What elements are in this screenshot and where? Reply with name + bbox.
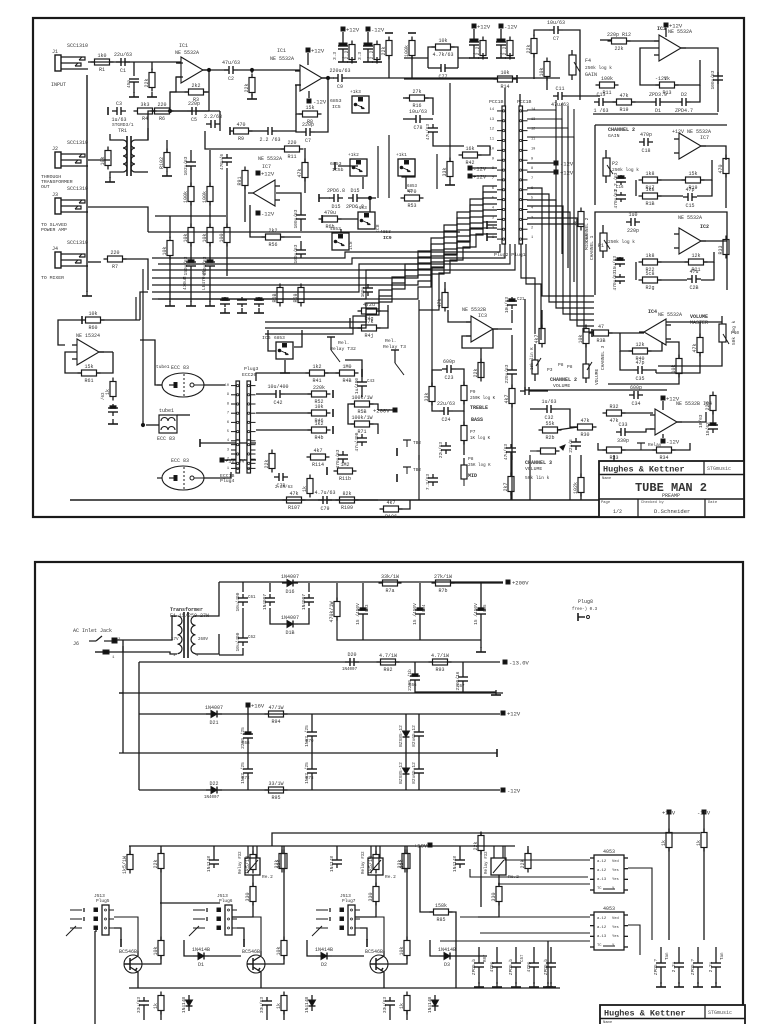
svg-text:PCC1B: PCC1B (489, 99, 504, 105)
title block page 2 (600, 1005, 745, 1024)
svg-text:1N4007: 1N4007 (281, 615, 299, 621)
wire (534, 344, 536, 352)
svg-text:1N4148: 1N4148 (329, 856, 335, 873)
svg-text:3k3: 3k3 (140, 102, 149, 108)
wire R330 to plug (478, 902, 499, 917)
svg-text:-12V: -12V (655, 76, 667, 82)
svg-text:SCC1310: SCC1310 (67, 140, 88, 146)
svg-text:100k: 100k (202, 191, 208, 203)
svg-text:R9: R9 (238, 136, 244, 142)
svg-text:220: 220 (110, 250, 119, 256)
svg-text:IC9: IC9 (383, 235, 392, 241)
label CHANNEL 2 (608, 127, 635, 133)
capacitor C66 (407, 669, 420, 691)
resistor R25 (473, 359, 484, 382)
wire (122, 259, 148, 290)
wire net R6 (527, 218, 594, 326)
wire (662, 401, 664, 410)
svg-text:ZPD4.7: ZPD4.7 (675, 108, 693, 114)
svg-text:IC5b: IC5b (332, 167, 344, 173)
svg-text:22k: 22k (244, 83, 250, 92)
svg-text:R93: R93 (435, 667, 444, 673)
svg-text:NE 5532A: NE 5532A (270, 56, 294, 62)
capacitor C24 (437, 401, 455, 423)
svg-text:8: 8 (227, 402, 229, 406)
svg-text:R11b: R11b (339, 476, 351, 482)
diode D2e (304, 995, 316, 1013)
wire (296, 85, 303, 114)
svg-text:470p: 470p (640, 132, 652, 138)
wire to strip top 2 (519, 94, 521, 106)
wire (88, 207, 148, 232)
wire (298, 608, 309, 624)
svg-text:1N4148: 1N4148 (452, 856, 458, 873)
svg-text:25K log K: 25K log K (468, 463, 491, 468)
svg-text:SCC1310: SCC1310 (67, 43, 88, 49)
svg-text:100u: 100u (360, 286, 366, 297)
wire (129, 846, 131, 854)
resistor R1B (639, 187, 662, 207)
ground Cc1 (674, 982, 684, 987)
svg-text:16k: 16k (465, 146, 474, 152)
wire (308, 91, 310, 98)
wire (405, 742, 407, 753)
svg-text:BC546B: BC546B (119, 949, 137, 955)
resistor R17 (639, 171, 662, 191)
svg-text:C62: C62 (248, 636, 256, 640)
svg-text:10/63: 10/63 (705, 422, 711, 436)
svg-text:D22: D22 (209, 781, 218, 787)
svg-text:CHANNEL 2: CHANNEL 2 (608, 127, 635, 133)
label IC2 (700, 224, 709, 230)
svg-text:R4B: R4B (342, 378, 351, 384)
wire (533, 947, 535, 959)
wire (463, 411, 465, 425)
label 25K log K (468, 463, 491, 468)
wire left vert (418, 300, 420, 460)
wire (463, 441, 465, 455)
svg-text:C24: C24 (441, 417, 450, 423)
terminal (408, 32, 416, 34)
resistor R52 (308, 385, 331, 405)
resistor R11b (334, 462, 357, 482)
Plug3 pin numbers (225, 384, 229, 471)
resistor P9 (461, 382, 467, 405)
label P8 (468, 456, 474, 462)
wire (608, 374, 679, 384)
wire (158, 244, 505, 264)
wire mid gnd bus (119, 752, 497, 754)
svg-text:CHANNEL 2: CHANNEL 2 (584, 217, 590, 242)
label THROUGH (41, 174, 61, 180)
capacitor Cb0 (471, 959, 484, 976)
svg-text:330: 330 (491, 892, 497, 901)
connector Plug6 (J513) (217, 893, 237, 935)
wire (515, 947, 517, 959)
wire (665, 28, 667, 37)
wire AC to primary bottom (109, 652, 177, 654)
label 250k log k (608, 239, 635, 245)
wire plug down (360, 928, 367, 940)
power tag -12V right (554, 161, 574, 168)
svg-text:R59: R59 (293, 293, 299, 302)
svg-text:R11: R11 (287, 154, 296, 160)
svg-text:1k: 1k (153, 1003, 159, 1009)
svg-text:CHANNEL 3: CHANNEL 3 (600, 345, 606, 370)
resistor R59 (293, 284, 304, 307)
wire (342, 32, 344, 44)
wire (160, 846, 162, 853)
wire vert (135, 297, 137, 320)
transistor T2 (242, 949, 265, 977)
svg-text:15 /450V: 15 /450V (355, 603, 361, 625)
svg-text:6853: 6853 (330, 98, 342, 104)
svg-text:14: 14 (490, 108, 494, 112)
svg-text:free-) 0.3: free-) 0.3 (572, 607, 598, 612)
svg-text:+16V: +16V (251, 703, 265, 710)
label IC7 (700, 135, 709, 141)
wire (608, 332, 644, 334)
svg-text:TO MIXER: TO MIXER (41, 275, 64, 281)
capacitor Cc3 (708, 959, 721, 972)
svg-text:330p: 330p (617, 438, 629, 444)
op-amp IC1A (176, 57, 208, 83)
label Y (612, 944, 615, 948)
svg-text:+12V: +12V (261, 171, 275, 178)
wire (166, 140, 168, 152)
wire (283, 1011, 285, 1020)
svg-text:NE 5532A: NE 5532A (668, 29, 692, 35)
svg-text:22k: 22k (520, 859, 526, 868)
wire channel2 volume frame (525, 299, 667, 390)
wire (294, 330, 302, 347)
label a-12 (597, 917, 607, 921)
svg-text:220u/63: 220u/63 (504, 364, 510, 383)
svg-text:220u/63: 220u/63 (329, 68, 350, 74)
wire (219, 648, 243, 655)
power tag -12V left (468, 166, 487, 173)
svg-text:47p: 47p (635, 360, 644, 366)
svg-text:P3: P3 (547, 367, 553, 373)
svg-text:R4b: R4b (314, 435, 323, 441)
wire (480, 640, 482, 648)
resistor R11 (281, 140, 304, 160)
wire (496, 971, 498, 984)
capacitor D1x (301, 594, 314, 611)
wire (404, 57, 428, 59)
svg-text:a-12: a-12 (597, 926, 607, 930)
resistor R7 (104, 250, 127, 270)
resistor R73c (520, 850, 531, 873)
wire (311, 753, 313, 765)
svg-text:1N4007: 1N4007 (204, 796, 220, 800)
IC IC11 (4053) (590, 906, 628, 950)
svg-text:C79: C79 (320, 506, 329, 512)
capacitor C83 (382, 997, 395, 1014)
svg-text:Ved: Ved (612, 859, 619, 864)
wire (701, 240, 727, 242)
resistor R100c (183, 224, 194, 247)
svg-text:BC546B: BC546B (365, 949, 383, 955)
wire filter gnd rail (337, 617, 481, 640)
wire (362, 197, 376, 199)
svg-text:100u/63: 100u/63 (293, 209, 299, 228)
wire (472, 175, 497, 177)
wire (473, 29, 475, 40)
wire (450, 67, 458, 69)
svg-text:82x65-12: 82x65-12 (411, 725, 417, 747)
label Plug4 (220, 478, 235, 484)
svg-text:Yes: Yes (612, 869, 619, 873)
wire (433, 136, 464, 146)
label VOLUME (553, 383, 570, 389)
capacitor C6B (240, 727, 253, 749)
wire (626, 40, 661, 42)
potentiometer F4 (569, 50, 612, 80)
svg-text:3k3: 3k3 (573, 217, 579, 226)
wire (260, 977, 262, 988)
wire (660, 947, 662, 959)
wire (311, 740, 313, 753)
wire (480, 618, 482, 640)
label E73 (306, 777, 314, 781)
tube V1a (157, 365, 204, 397)
svg-text:4.7/1W: 4.7/1W (379, 653, 397, 659)
resistor P7 (461, 422, 467, 445)
wire R330 to plug (232, 902, 253, 917)
resistor R84 (473, 832, 484, 855)
wire (660, 971, 662, 984)
label BASS (471, 417, 483, 423)
op-amp IC4B (650, 409, 682, 435)
ground (469, 53, 479, 58)
svg-text:15u/63: 15u/63 (612, 256, 618, 273)
capacitor C2B (504, 364, 517, 383)
wire (459, 846, 461, 856)
terminal (321, 215, 323, 223)
svg-text:IC1: IC1 (179, 43, 188, 49)
wire (200, 442, 256, 444)
resistor R7b (432, 574, 455, 594)
wire (526, 244, 541, 340)
IC IC10 (4053) (590, 849, 628, 893)
label CHANNEL 2 (550, 377, 577, 383)
wire (226, 168, 228, 227)
wire (142, 421, 144, 425)
ground Cb3 (529, 982, 539, 987)
label NE 5532A (668, 29, 692, 35)
power tag +12V left (468, 174, 487, 181)
svg-text:C57: C57 (521, 954, 525, 962)
svg-text:11: 11 (531, 138, 535, 142)
wire (511, 378, 513, 389)
ground (363, 57, 373, 62)
wire bus to channels (567, 106, 569, 268)
svg-text:6: 6 (492, 187, 494, 191)
wire (656, 353, 700, 373)
wire (480, 348, 482, 378)
svg-text:330: 330 (245, 892, 251, 901)
power tag -12V (307, 99, 327, 106)
page 2 sheet border (35, 562, 743, 1024)
capacitor C73 (304, 762, 317, 784)
capacitor C5 (187, 101, 201, 123)
svg-text:10: 10 (225, 384, 229, 388)
svg-text:ZPD3.9: ZPD3.9 (649, 92, 667, 98)
label 50k log k (731, 320, 737, 345)
wire net T3 (527, 128, 568, 268)
wire R330 to plug (355, 902, 376, 917)
resistor R62 (105, 378, 116, 401)
resistor R46 (308, 404, 331, 424)
wire (283, 846, 285, 853)
svg-text:VOLUME: VOLUME (594, 368, 600, 385)
capacitor C16 (613, 172, 626, 191)
svg-text:22k: 22k (276, 859, 282, 868)
resistor R13 (656, 76, 679, 96)
wire (277, 130, 296, 132)
wire jack drop (122, 646, 124, 652)
diode D2d (315, 947, 333, 968)
svg-text:a-12: a-12 (597, 917, 607, 921)
wire (418, 753, 420, 765)
svg-text:1k: 1k (302, 486, 308, 492)
label NE 5532A (658, 312, 682, 318)
svg-text:R2b: R2b (545, 435, 554, 441)
wire (563, 30, 580, 40)
label Ved (612, 916, 619, 921)
wire (248, 130, 263, 132)
svg-text:1: 1 (531, 236, 533, 240)
svg-text:R102: R102 (159, 157, 165, 169)
wire stage top bus upper (272, 833, 700, 846)
junction (168, 109, 171, 112)
svg-text:P1: P1 (598, 243, 604, 249)
wire net R7 (527, 224, 594, 332)
terminal (486, 233, 488, 241)
svg-text:C15: C15 (685, 203, 694, 209)
wire net L9 (419, 234, 497, 310)
resistor R19 (682, 171, 705, 191)
wire (697, 947, 699, 959)
wire (152, 110, 187, 112)
wire (534, 30, 549, 36)
svg-text:1M2: 1M2 (340, 462, 349, 468)
svg-text:2PD6.8: 2PD6.8 (327, 188, 345, 194)
capacitor C53 (202, 256, 215, 275)
svg-text:R3B: R3B (596, 338, 605, 344)
label 1K log K (470, 436, 491, 441)
resistor R96 (661, 829, 672, 852)
wire (635, 180, 637, 196)
connector Plug8 (578, 613, 590, 621)
svg-text:22k: 22k (526, 44, 532, 53)
svg-text:IC1: IC1 (277, 48, 286, 54)
wire (88, 61, 183, 63)
capacitor C62 (254, 297, 264, 307)
svg-text:1M0: 1M0 (342, 364, 351, 370)
svg-text:Yes: Yes (612, 926, 619, 930)
power tag +12V (664, 23, 683, 30)
wire (444, 282, 446, 292)
svg-text:100k: 100k (183, 191, 189, 203)
wire (135, 171, 148, 173)
wire (307, 940, 316, 956)
ground Cc3 (711, 982, 721, 987)
label J6 (73, 641, 79, 647)
wire (405, 753, 407, 763)
svg-text:1N4007: 1N4007 (342, 668, 358, 672)
capacitor Cc1 (671, 959, 684, 972)
svg-text:4.7k/63: 4.7k/63 (432, 52, 453, 58)
wire net T4 (527, 137, 574, 282)
wire (119, 692, 123, 694)
svg-text:C9: C9 (337, 84, 343, 90)
wire (190, 168, 192, 186)
svg-text:47/1W: 47/1W (268, 705, 283, 711)
svg-text:C7: C7 (553, 36, 559, 42)
svg-text:C11: C11 (555, 86, 564, 92)
svg-text:Name: Name (602, 477, 612, 481)
resistor R37 (692, 334, 703, 357)
svg-text:10k: 10k (183, 233, 189, 242)
svg-text:+12V: +12V (311, 48, 325, 55)
svg-text:Date: Date (708, 501, 718, 505)
wire net L1 (265, 186, 497, 322)
svg-text:R114: R114 (312, 462, 324, 468)
wire (247, 707, 249, 714)
wire (585, 344, 587, 358)
label IC6 (262, 335, 271, 341)
resistor R32 (603, 404, 626, 424)
wire base (370, 956, 407, 964)
svg-text:tube1: tube1 (159, 408, 174, 414)
svg-text:1k: 1k (661, 840, 667, 846)
svg-text:R94: R94 (271, 719, 280, 725)
label C65 (484, 604, 488, 612)
svg-text:R7a: R7a (385, 588, 394, 594)
wire secondary top (195, 582, 219, 616)
resistor R5 (244, 74, 255, 97)
wire (621, 412, 653, 414)
svg-text:220p: 220p (302, 122, 314, 128)
svg-text:4.7/1W: 4.7/1W (431, 653, 449, 659)
wire (319, 197, 330, 199)
wire (580, 493, 582, 500)
svg-text:IC6: IC6 (262, 335, 271, 341)
connector Plug7 (J513) (340, 893, 360, 935)
wire plug down (237, 928, 244, 940)
wire (620, 351, 633, 370)
wire (285, 393, 312, 395)
wire (487, 224, 497, 226)
label a-12 (597, 860, 607, 864)
wire (403, 97, 410, 99)
svg-text:10k: 10k (500, 70, 509, 76)
resistor R4 (134, 102, 157, 122)
op-amp IC6A (72, 339, 104, 365)
resistor R51 (264, 450, 275, 473)
label Plug3 (244, 366, 259, 372)
svg-text:22k: 22k (614, 46, 623, 52)
svg-text:R30: R30 (580, 432, 589, 438)
svg-text:600p: 600p (443, 359, 455, 365)
resistor R93 (429, 653, 452, 673)
resistor R72f (368, 883, 379, 906)
terminal (332, 409, 334, 417)
wire (419, 583, 421, 606)
wire (657, 261, 689, 263)
